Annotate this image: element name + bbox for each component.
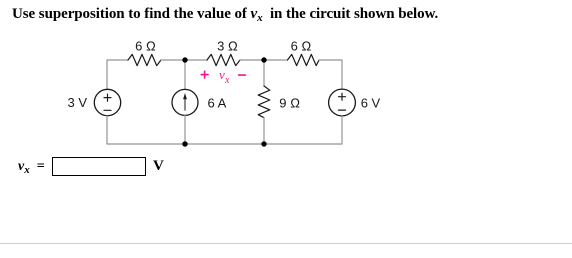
wire between 3Ω and right 6Ω xyxy=(240,59,288,61)
label 3Ω xyxy=(217,39,238,54)
svg-text:6 A: 6 A xyxy=(208,96,227,111)
wire top-left horizontal xyxy=(107,59,128,61)
svg-text:9 Ω: 9 Ω xyxy=(279,96,300,111)
svg-text:3 V: 3 V xyxy=(67,95,87,110)
wire right branch upper xyxy=(341,60,343,89)
node bottom-right junction xyxy=(261,141,266,146)
wire right branch lower xyxy=(341,116,343,144)
label vx xyxy=(219,67,230,86)
wire 9Ω branch upper xyxy=(263,60,265,86)
wire middle branch lower xyxy=(184,115,186,144)
label 9Ω xyxy=(279,96,300,111)
node bottom-left junction xyxy=(182,141,187,146)
svg-text:3 Ω: 3 Ω xyxy=(217,39,238,54)
label vx polarity minus xyxy=(239,74,246,76)
resistor 3Ω xyxy=(207,54,240,65)
label 6Ω right xyxy=(291,39,312,54)
answer unit V xyxy=(153,158,164,175)
wire top-right horizontal xyxy=(319,59,342,61)
answer input box xyxy=(52,157,146,176)
node top-right junction xyxy=(261,57,266,62)
resistor 9Ω xyxy=(258,86,270,118)
node top-left junction xyxy=(182,57,187,62)
wire bottom xyxy=(107,143,342,145)
wire middle branch upper (current source) xyxy=(184,60,186,89)
svg-text:6 V: 6 V xyxy=(361,96,381,111)
voltage source 3V xyxy=(94,89,120,115)
current source 6A xyxy=(172,89,198,115)
svg-text:6 Ω: 6 Ω xyxy=(135,39,156,54)
svg-text:6 Ω: 6 Ω xyxy=(291,39,312,54)
answer label vx = xyxy=(18,159,45,175)
label vx polarity plus xyxy=(201,71,208,78)
wire left branch upper xyxy=(106,60,108,89)
title xyxy=(12,6,438,23)
label 6A xyxy=(208,96,227,111)
wire left branch lower xyxy=(106,116,108,144)
label 3V xyxy=(67,95,87,110)
voltage source 6V xyxy=(329,89,356,116)
label 6V xyxy=(361,96,381,111)
label 6Ω left xyxy=(135,39,156,54)
wire 9Ω branch lower xyxy=(263,118,265,144)
resistor 6Ω left xyxy=(128,54,161,65)
svg-text:x: x xyxy=(224,75,230,86)
resistor 6Ω right xyxy=(288,54,320,65)
wire between 6Ω and 3Ω xyxy=(161,59,207,61)
separator line xyxy=(0,243,572,244)
